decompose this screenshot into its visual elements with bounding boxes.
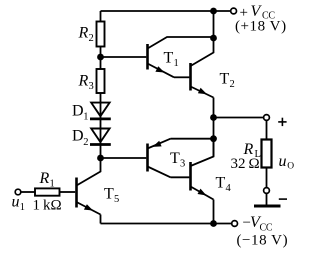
wire T3 collector to T4 base [171, 176, 190, 178]
wire input lead [21, 191, 35, 193]
svg-text:5: 5 [114, 194, 119, 205]
svg-text:T: T [164, 49, 174, 66]
node T3 emitter junction [210, 135, 217, 142]
svg-text:2: 2 [89, 33, 94, 44]
svg-text:1: 1 [20, 202, 25, 213]
transistor T3 [148, 139, 171, 178]
svg-text:u: u [12, 194, 20, 211]
svg-text:32 Ω: 32 Ω [231, 156, 260, 172]
wire output column [213, 98, 215, 157]
svg-text:(−18 V): (−18 V) [237, 232, 289, 248]
wire top rail [101, 10, 231, 12]
wire T3 base [101, 157, 147, 159]
wire from top rail down to collector junction [213, 11, 215, 38]
terminal input circle [15, 189, 21, 195]
transistor T5 [77, 158, 101, 215]
svg-text:D: D [72, 103, 84, 120]
svg-text:2: 2 [83, 137, 88, 148]
svg-text:3: 3 [180, 159, 185, 170]
svg-text:T: T [170, 150, 180, 167]
node top rail junction [210, 8, 217, 15]
svg-text:R: R [39, 170, 50, 187]
resistor R2 [97, 22, 105, 47]
wire T1 emitter to T2 base [174, 76, 189, 78]
svg-text:3: 3 [89, 81, 94, 92]
svg-text:2: 2 [230, 79, 235, 90]
transistor T1 [148, 37, 214, 77]
node output junction [210, 114, 217, 121]
wire R2 bottom lead [100, 47, 102, 58]
diode D1 [91, 103, 109, 117]
transistor T4 [191, 139, 214, 200]
wire T4 emitter down to bottom rail [213, 200, 215, 224]
wire T3 emitter to output node [171, 138, 214, 140]
svg-text:T: T [216, 175, 226, 192]
svg-text:(+18 V): (+18 V) [235, 19, 287, 35]
diode D2 [91, 129, 109, 143]
ground [254, 205, 281, 208]
svg-text:T: T [220, 71, 230, 88]
load branch: wire from + terminal down to RL [266, 120, 268, 139]
resistor RL [262, 140, 272, 168]
terminal -Vcc circle [232, 221, 238, 227]
terminal output + circle [264, 115, 270, 121]
wire diode chain [100, 93, 102, 158]
wire R2 top lead [100, 11, 102, 22]
wire R1 to T5 base [60, 191, 76, 193]
wire T1 base [101, 56, 147, 58]
transistor T2 [191, 38, 214, 98]
terminal output - circle [264, 188, 270, 194]
wire R3 top lead [100, 57, 102, 69]
node bottom rail junction [210, 220, 217, 227]
svg-text:R: R [78, 73, 89, 90]
svg-text:1 kΩ: 1 kΩ [33, 198, 62, 214]
node R2/R3/T1-base junction [97, 54, 104, 61]
wire T5 emitter down [100, 215, 102, 224]
resistor R3 [97, 69, 105, 93]
svg-text:1: 1 [83, 111, 88, 122]
svg-text:T: T [104, 186, 114, 203]
svg-text:u: u [279, 153, 287, 170]
wire to ground [266, 193, 268, 205]
svg-text:D: D [72, 127, 84, 144]
label - near ground [279, 198, 287, 200]
terminal +Vcc circle [231, 8, 237, 14]
label + output [278, 121, 286, 123]
node T1/T2 collector junction [210, 35, 217, 42]
svg-text:O: O [287, 161, 294, 171]
wire to output terminal [214, 117, 264, 119]
svg-text:R: R [78, 25, 89, 42]
node D2/T5-collector/T3-base junction [97, 155, 104, 162]
svg-text:1: 1 [174, 58, 179, 69]
wire RL bottom lead [266, 168, 268, 188]
svg-text:1: 1 [50, 179, 55, 190]
wire bottom rail [101, 223, 232, 225]
resistor R1 [35, 188, 60, 195]
svg-text:4: 4 [226, 183, 232, 194]
